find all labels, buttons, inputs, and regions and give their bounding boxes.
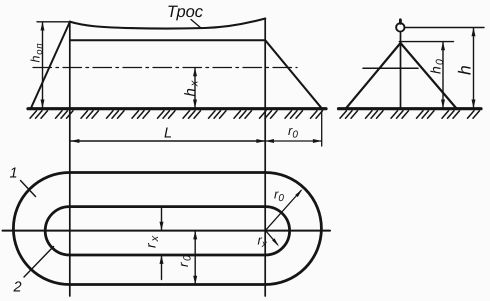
r_0 down arrowhead bbox=[193, 276, 197, 285]
outer obround contour 1 bbox=[13, 173, 321, 285]
h_0 dimension line bbox=[442, 42, 444, 108]
L left arrowhead bbox=[71, 139, 80, 143]
L dimension line bbox=[71, 140, 266, 142]
h bottom arrowhead bbox=[472, 100, 476, 109]
r_0 dimension line in plan bbox=[194, 231, 196, 284]
r_0 dimension line bottom bbox=[265, 140, 322, 142]
ground line left view bbox=[28, 107, 326, 110]
right guy wire bbox=[265, 40, 322, 108]
svg-text:1: 1 bbox=[10, 166, 18, 182]
leader for label 1 bbox=[21, 181, 36, 197]
leader for label 2 bbox=[24, 247, 54, 278]
h_op top arrowhead bbox=[41, 22, 45, 31]
h dimension line bbox=[473, 28, 475, 108]
h extension line bbox=[405, 27, 484, 29]
h_x dimension line bbox=[194, 68, 196, 108]
h_x bottom arrowhead bbox=[193, 100, 197, 109]
Трос leader line bbox=[191, 20, 201, 29]
h_x top arrowhead bbox=[193, 68, 197, 77]
h_0 top arrowhead bbox=[441, 42, 445, 51]
plan view horizontal center line bbox=[3, 230, 331, 232]
r_x down arrowhead at center line bbox=[160, 222, 164, 231]
inner obround contour 2 bbox=[45, 207, 289, 255]
h_op bottom arrowhead bbox=[41, 100, 45, 109]
r_0 up arrowhead bbox=[193, 231, 197, 240]
svg-text:h: h bbox=[455, 65, 475, 75]
h_0 extension line bbox=[399, 41, 453, 43]
left guy wire bbox=[31, 22, 70, 109]
r_x dimension upper stem bbox=[161, 207, 163, 231]
r_0 extension line bbox=[321, 111, 323, 146]
right-view left leg bbox=[346, 43, 401, 108]
L right arrowhead bbox=[256, 139, 265, 143]
r_0 left arrowhead bbox=[265, 139, 274, 143]
right mast with projection line into plan view bbox=[264, 19, 266, 297]
right-view right leg bbox=[401, 43, 457, 109]
h_op dimension line bbox=[42, 23, 44, 108]
svg-text:Трос: Трос bbox=[167, 3, 204, 21]
r_x dimension lower stem bbox=[161, 255, 163, 279]
dash-dot center line at hx level bbox=[33, 67, 297, 69]
right-view mast vertical bbox=[400, 32, 402, 108]
r_0 right arrowhead bbox=[313, 139, 322, 143]
h top arrowhead bbox=[472, 28, 476, 37]
left mast with projection line into plan view bbox=[69, 22, 71, 297]
cable circle on right-view mast bbox=[396, 23, 404, 31]
ground hatching right view bbox=[340, 111, 480, 118]
cable curve (Трос) bbox=[70, 19, 265, 29]
svg-text:2: 2 bbox=[13, 280, 22, 296]
r_0 radius arrow to outer arc bbox=[265, 191, 301, 231]
h_0 bottom arrowhead bbox=[441, 100, 445, 109]
r_x radius arrow to inner arc bbox=[265, 230, 277, 244]
svg-text:L: L bbox=[164, 126, 172, 142]
tick above circle bbox=[399, 20, 402, 24]
horizontal cable attachment line bbox=[70, 39, 265, 41]
right-view crossbar bbox=[363, 67, 418, 69]
ground hatching left view bbox=[30, 111, 323, 118]
ground line right view bbox=[339, 107, 482, 110]
r_x up arrowhead at inner bottom bbox=[160, 255, 164, 264]
top extension line at left mast top bbox=[37, 21, 70, 23]
